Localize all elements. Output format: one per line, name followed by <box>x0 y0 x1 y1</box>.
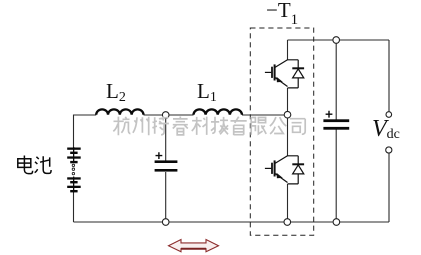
wire: L1 to IGBT midpoint node <box>242 114 288 116</box>
emitter arrow of Q1 <box>277 77 283 82</box>
label L2 <box>106 79 126 106</box>
wire: middle capacitor branch vertical <box>165 115 167 222</box>
label 电池 (battery, hand-drawn CJK) <box>18 156 51 174</box>
battery ellipsis dots <box>72 164 74 175</box>
wire: right capacitor branch vertical <box>335 40 337 222</box>
plus label of C1 <box>156 152 163 159</box>
wire: bottom horizontal rail <box>74 221 390 223</box>
node: bottom middle capacitor <box>162 219 169 226</box>
inductor L1 <box>194 109 242 114</box>
wire: top horizontal rail to right side <box>288 39 390 41</box>
dashed box around T1 <box>250 28 313 235</box>
diode D2 (anti-parallel, lower) <box>292 156 304 184</box>
diode D1 (anti-parallel, upper) <box>292 60 304 88</box>
node: L1 to IGBT midpoint <box>284 111 291 118</box>
wire: between L2 and L1 through node <box>144 114 194 116</box>
emitter arrow of Q2 <box>277 173 283 178</box>
wire: right rail with Vdc terminal gap <box>388 40 390 222</box>
inductor L2 <box>96 109 143 114</box>
transistor Q2 (lower IGBT) <box>265 156 298 184</box>
node: junction L2/L1 top <box>162 112 169 119</box>
terminal: Vdc + <box>386 112 392 118</box>
transistor Q1 (upper IGBT) <box>265 60 298 88</box>
plus label of C2 <box>326 111 333 118</box>
label -T1 <box>266 0 298 29</box>
wire: battery bottom to bottom rail <box>73 192 75 223</box>
capacitor C2 (right, polarized) <box>323 119 349 129</box>
arrow (red bidirectional) <box>169 240 219 252</box>
node: bottom IGBT leg <box>284 219 291 226</box>
capacitor C1 (middle, polarized) <box>155 160 178 171</box>
label L1 <box>197 79 217 106</box>
label Vdc <box>372 116 400 143</box>
terminal: Vdc - <box>386 147 392 153</box>
wire: top-left horizontal rail from battery corner to L2 <box>74 40 390 222</box>
watermark 杭州将睿科技有限公司 (gray, hand-drawn) <box>113 116 305 135</box>
node: top rail / right capacitor <box>333 37 340 44</box>
wire: IGBT leg rail segments <box>287 40 289 222</box>
node: bottom right capacitor <box>333 219 340 226</box>
battery BT (electrochemical stack) <box>67 147 81 193</box>
